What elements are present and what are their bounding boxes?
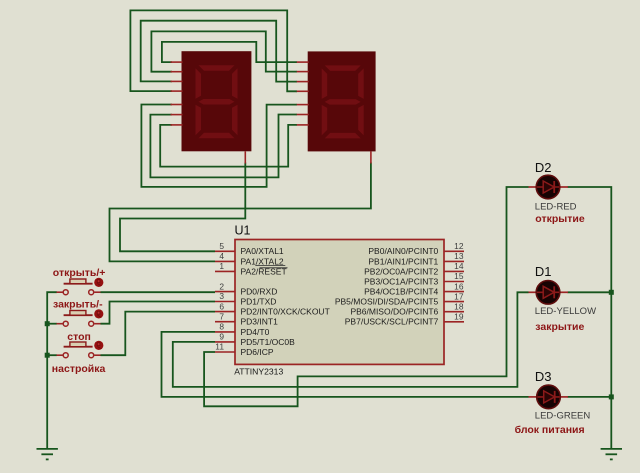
svg-text:PB5/MOSI/DI/SDA/PCINT5: PB5/MOSI/DI/SDA/PCINT5 <box>335 297 439 307</box>
pin numbers <box>215 241 464 352</box>
svg-text:PB7/USCK/SCL/PCINT7: PB7/USCK/SCL/PCINT7 <box>345 317 439 327</box>
svg-text:15: 15 <box>454 271 464 281</box>
wire display1 common to pin 5 PA0 <box>120 163 245 252</box>
button SW3 (стоп / настройка) <box>52 331 106 375</box>
svg-text:7: 7 <box>219 311 224 321</box>
7-seg display DISP2 <box>297 51 376 163</box>
svg-text:12: 12 <box>454 241 464 251</box>
wire right ground bus from D2 <box>568 187 612 449</box>
button SW2 (закрыть/-) <box>53 299 103 327</box>
pin names (left, PA/PD ports) <box>241 246 330 357</box>
junction left bus / button3 <box>45 353 50 358</box>
svg-text:настройка: настройка <box>52 363 106 375</box>
svg-text:3: 3 <box>219 291 224 301</box>
svg-text:2: 2 <box>219 281 224 291</box>
svg-text:D2: D2 <box>535 160 552 175</box>
7-seg display DISP1 <box>171 51 252 163</box>
svg-text:PB2/OC0A/PCINT2: PB2/OC0A/PCINT2 <box>364 266 438 276</box>
XTAL2 underline and RESET overline <box>255 265 285 267</box>
LED D1 (yellow) <box>529 264 597 333</box>
svg-text:блок питания: блок питания <box>515 424 585 436</box>
svg-text:PB0/AIN0/PCINT0: PB0/AIN0/PCINT0 <box>368 246 438 256</box>
svg-text:PD5/T1/OC0B: PD5/T1/OC0B <box>241 337 296 347</box>
svg-text:закрыть/-: закрыть/- <box>53 299 103 311</box>
svg-text:PB3/OC1A/PCINT3: PB3/OC1A/PCINT3 <box>364 276 438 286</box>
svg-text:D3: D3 <box>535 369 552 384</box>
wire button1 to pin 2 PD0 <box>101 291 216 293</box>
svg-text:1: 1 <box>219 261 224 271</box>
junction left bus / button2 <box>45 321 50 326</box>
wire left ground bus <box>47 292 57 449</box>
wire net-C loop <box>151 31 297 71</box>
svg-text:PB4/OC1B/PCINT4: PB4/OC1B/PCINT4 <box>364 287 438 297</box>
wire display2 common to pin 4 PA1 <box>110 163 371 262</box>
svg-text:17: 17 <box>454 291 464 301</box>
svg-text:PB1/AIN1/PCINT1: PB1/AIN1/PCINT1 <box>368 256 438 266</box>
wire net-G under displays (innermost bottom) <box>160 125 297 167</box>
LED D3 (green) <box>515 369 591 436</box>
wire net-F under displays <box>150 115 297 178</box>
svg-text:LED-GREEN: LED-GREEN <box>535 411 591 422</box>
svg-text:открыть/+: открыть/+ <box>53 267 106 279</box>
pin names (right, PB port) <box>335 246 439 327</box>
svg-text:PD3/INT1: PD3/INT1 <box>241 317 279 327</box>
wire net-A loop (seg d bus over top, outermost) <box>130 10 297 91</box>
svg-text:PD4/T0: PD4/T0 <box>241 327 270 337</box>
svg-text:открытие: открытие <box>535 213 585 225</box>
wire button2 to pin 3 PD1 <box>101 302 216 324</box>
wire pin 8 PD4 to LED D3 <box>162 332 529 397</box>
svg-text:11: 11 <box>215 342 224 352</box>
wire net-D loop (innermost top) <box>162 42 297 62</box>
svg-text:14: 14 <box>454 261 464 271</box>
button SW1 (открыть/+) <box>53 267 106 295</box>
svg-text:PD0/RXD: PD0/RXD <box>241 287 278 297</box>
ground (left) <box>37 449 58 460</box>
svg-text:8: 8 <box>219 322 224 332</box>
svg-text:LED-RED: LED-RED <box>535 202 577 213</box>
wire pin 11 PD6 to LED D2 <box>204 187 528 406</box>
svg-text:18: 18 <box>454 301 464 311</box>
svg-text:19: 19 <box>454 312 464 322</box>
svg-text:PB6/MISO/DO/PCINT6: PB6/MISO/DO/PCINT6 <box>350 307 438 317</box>
svg-text:4: 4 <box>219 251 224 261</box>
U1 body box <box>235 240 444 365</box>
svg-text:5: 5 <box>219 241 224 251</box>
U1 pin stubs (pins 5,4,1,2,3,6,7,8,9,11 left; 12-19 right) <box>215 251 464 352</box>
wire net-E under displays (outermost bottom) <box>141 105 297 187</box>
svg-text:D1: D1 <box>535 264 552 279</box>
svg-text:стоп: стоп <box>67 331 91 343</box>
svg-text:PD6/ICP: PD6/ICP <box>241 347 274 357</box>
wire D3 right to bus <box>568 396 612 398</box>
wire D1 right to bus <box>568 291 612 293</box>
svg-text:LED-YELLOW: LED-YELLOW <box>535 306 596 317</box>
svg-text:13: 13 <box>454 251 464 261</box>
wire net-B loop <box>141 21 297 82</box>
svg-text:16: 16 <box>454 281 464 291</box>
wire pin 9 PD5 to LED D1 <box>173 292 529 387</box>
svg-text:закрытие: закрытие <box>535 321 584 333</box>
MCU U1 ATTINY2313 <box>215 224 464 377</box>
svg-text:6: 6 <box>219 301 224 311</box>
svg-text:PD1/TXD: PD1/TXD <box>241 296 277 306</box>
LED D2 (red) <box>529 160 585 225</box>
ground (right) <box>601 449 622 460</box>
junction right bus / D1 <box>609 290 614 295</box>
wire button3 to pin 6 PD2 <box>101 312 216 356</box>
svg-text:9: 9 <box>219 332 224 342</box>
junction right bus / D3 <box>609 394 614 399</box>
svg-text:U1: U1 <box>235 224 251 238</box>
svg-text:PA0/XTAL1: PA0/XTAL1 <box>241 246 284 256</box>
svg-text:PA1/XTAL2: PA1/XTAL2 <box>241 256 284 266</box>
svg-text:ATTINY2313: ATTINY2313 <box>234 367 283 377</box>
svg-text:PD2/INT0/XCK/CKOUT: PD2/INT0/XCK/CKOUT <box>241 307 330 317</box>
